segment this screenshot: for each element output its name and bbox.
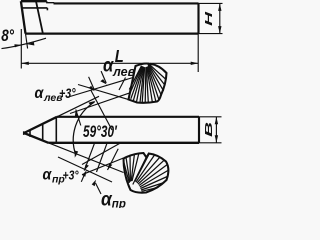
- lower callout arrowhead 1: [82, 170, 86, 177]
- L extension right: [197, 34, 199, 72]
- L dimension line: [21, 62, 198, 64]
- steep stroke near blob: [119, 78, 126, 91]
- insert boundary vertical: [42, 124, 44, 141]
- 8 deg arc: [2, 38, 47, 48]
- lower slant edge of nose: [24, 133, 48, 143]
- short arrow line at bar top: [76, 110, 81, 126]
- shallow callout line 2: [70, 93, 131, 114]
- H dim arrowhead top: [218, 3, 221, 10]
- svg-text:L: L: [115, 46, 124, 66]
- upper callout arrowhead 2: [100, 79, 107, 84]
- 59deg30 arc: [73, 102, 94, 156]
- svg-text:α: α: [35, 84, 44, 102]
- svg-text:пр: пр: [112, 199, 126, 208]
- tool front face (8 deg): [21, 1, 26, 33]
- svg-text:+3°: +3°: [63, 168, 79, 182]
- svg-text:8°: 8°: [1, 27, 15, 46]
- H extension top: [199, 2, 223, 4]
- nose tip flat line: [29, 130, 31, 137]
- shank bottom edge: [26, 32, 199, 34]
- upper slant thin extension: [57, 96, 99, 117]
- 8 deg arc arrowhead left: [14, 44, 21, 47]
- 59deg30 arc arrowhead bottom: [75, 151, 79, 158]
- shank top edge: [54, 2, 199, 4]
- up-arrow tail 1: [81, 173, 85, 182]
- bar top edge: [57, 116, 199, 118]
- lower callout arrowhead 3: [108, 164, 113, 170]
- svg-text:+3°: +3°: [59, 86, 76, 101]
- B extension top: [199, 116, 222, 118]
- 59deg30 arc arrowhead top: [89, 101, 96, 106]
- insert seat stub: [46, 8, 48, 10]
- H dim arrowhead bottom: [218, 26, 221, 33]
- steep line low D1: [84, 144, 94, 171]
- lower callout arrowhead 2: [92, 180, 96, 187]
- nose tip blunt: [23, 131, 25, 135]
- front face thin extension down: [26, 34, 28, 49]
- B dim arrowhead bottom: [215, 135, 218, 143]
- steep stroke 2: [101, 71, 106, 83]
- B extension bottom: [199, 142, 222, 144]
- B dim arrowhead top: [215, 117, 218, 125]
- shank right edge: [197, 3, 199, 33]
- brazed insert bottom line: [22, 7, 48, 9]
- upper slant edge of nose: [24, 117, 57, 133]
- head top edge: [21, 0, 47, 2]
- steep stroke 1: [89, 77, 95, 90]
- svg-text:H: H: [203, 11, 214, 26]
- shallow asc line F2: [82, 158, 124, 175]
- H dimension line: [219, 3, 221, 33]
- L dim arrowhead left: [21, 62, 29, 65]
- lower callout arrowhead 4: [84, 164, 89, 170]
- bar bottom edge: [48, 142, 199, 144]
- head back slanted line: [36, 1, 43, 33]
- svg-text:лев: лев: [112, 65, 136, 79]
- hatch rays lower blob: [124, 162, 130, 183]
- svg-text:59°30′: 59°30′: [83, 123, 117, 141]
- up-arrow tail 2 (alpha pr leader): [96, 183, 102, 194]
- svg-text:B: B: [203, 122, 215, 137]
- H extension bottom: [199, 33, 223, 35]
- steep line to bar: [91, 91, 112, 131]
- steep line low D2: [97, 144, 107, 173]
- shallow line low C1: [58, 157, 112, 182]
- 8 deg arc arrowhead right: [27, 42, 35, 45]
- shallow callout line desc: [78, 85, 129, 100]
- L dim arrowhead right: [191, 62, 199, 65]
- vertical reference line for 8 deg / L extension left: [20, 29, 22, 69]
- head boundary vertical: [55, 117, 57, 143]
- shallow callout line asc: [70, 78, 133, 97]
- step down to shank top: [47, 1, 54, 3]
- steep line low D3: [108, 149, 119, 170]
- shallow asc line F1: [82, 144, 120, 165]
- hatch rays upper blob: [129, 66, 141, 90]
- bar right edge: [198, 117, 200, 143]
- B dimension line: [215, 117, 217, 143]
- upper callout arrowhead 1: [88, 86, 95, 91]
- lower slant thin extension: [48, 143, 123, 173]
- upper callout arrowhead 3: [75, 110, 79, 117]
- svg-text:α: α: [43, 166, 52, 184]
